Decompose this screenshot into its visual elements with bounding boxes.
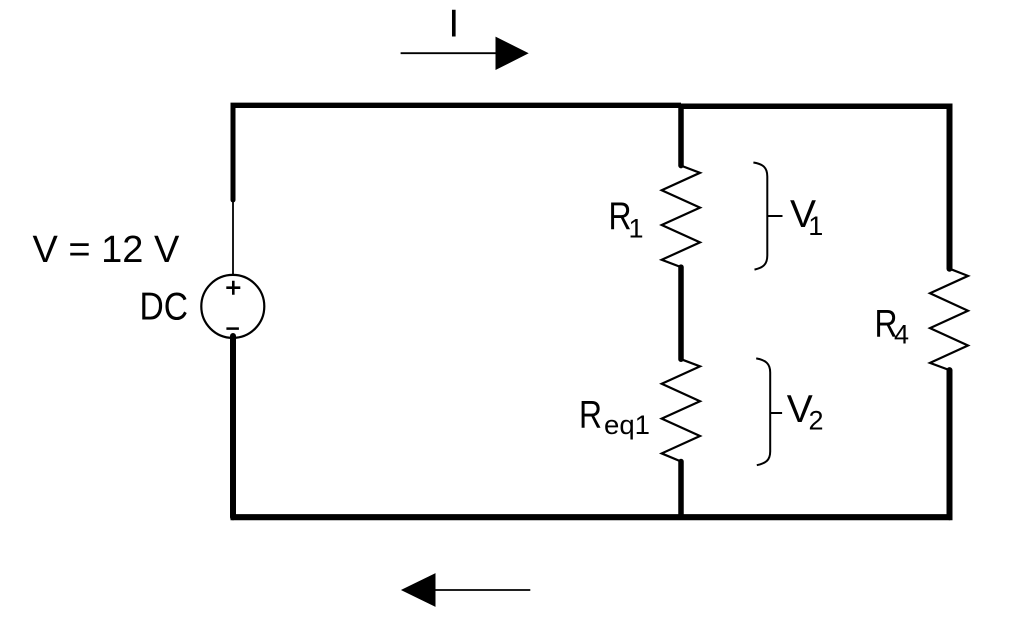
brace V1 bbox=[753, 163, 782, 270]
current arrow top head bbox=[496, 37, 529, 70]
voltage source minus sign bbox=[226, 327, 239, 330]
svg-text:4: 4 bbox=[894, 319, 909, 349]
wire middle vertical upper bbox=[678, 108, 684, 166]
wire bottom horizontal bbox=[231, 514, 953, 520]
label V = 12 V bbox=[33, 229, 180, 271]
return arrow bottom head bbox=[401, 573, 436, 607]
wire left vertical thin lead into source bbox=[232, 198, 234, 276]
label Req1 bbox=[579, 394, 650, 440]
svg-text:1: 1 bbox=[808, 211, 823, 241]
svg-text:R: R bbox=[579, 394, 602, 437]
wire right vertical upper bbox=[947, 108, 953, 269]
label V2 bbox=[787, 388, 824, 436]
wire top horizontal bbox=[231, 105, 953, 106]
resistor R4 zigzag bbox=[930, 269, 968, 370]
label I bbox=[448, 3, 459, 46]
svg-text:1: 1 bbox=[629, 213, 644, 243]
svg-text:eq1: eq1 bbox=[604, 410, 650, 440]
voltage source plus sign bbox=[226, 281, 240, 295]
label DC bbox=[140, 286, 189, 329]
resistor R1 zigzag bbox=[662, 166, 700, 268]
current arrow top line bbox=[401, 52, 500, 54]
resistor Req1 zigzag bbox=[662, 359, 700, 461]
wire middle vertical mid bbox=[678, 267, 684, 359]
label V1 bbox=[790, 193, 823, 241]
wire middle vertical lower bbox=[678, 462, 684, 518]
wire left vertical lower (thick) bbox=[230, 336, 236, 517]
svg-text:I: I bbox=[448, 3, 459, 46]
wire right vertical lower bbox=[947, 370, 953, 517]
label R4 bbox=[875, 302, 910, 349]
voltage source circle bbox=[201, 275, 264, 338]
wire left vertical upper (thick) bbox=[231, 107, 236, 200]
svg-text:2: 2 bbox=[809, 406, 824, 436]
svg-text:DC: DC bbox=[140, 286, 189, 329]
return arrow bottom line bbox=[433, 589, 530, 591]
brace V2 bbox=[756, 358, 782, 465]
label R1 bbox=[609, 195, 644, 243]
svg-text:V = 12 V: V = 12 V bbox=[33, 229, 180, 271]
